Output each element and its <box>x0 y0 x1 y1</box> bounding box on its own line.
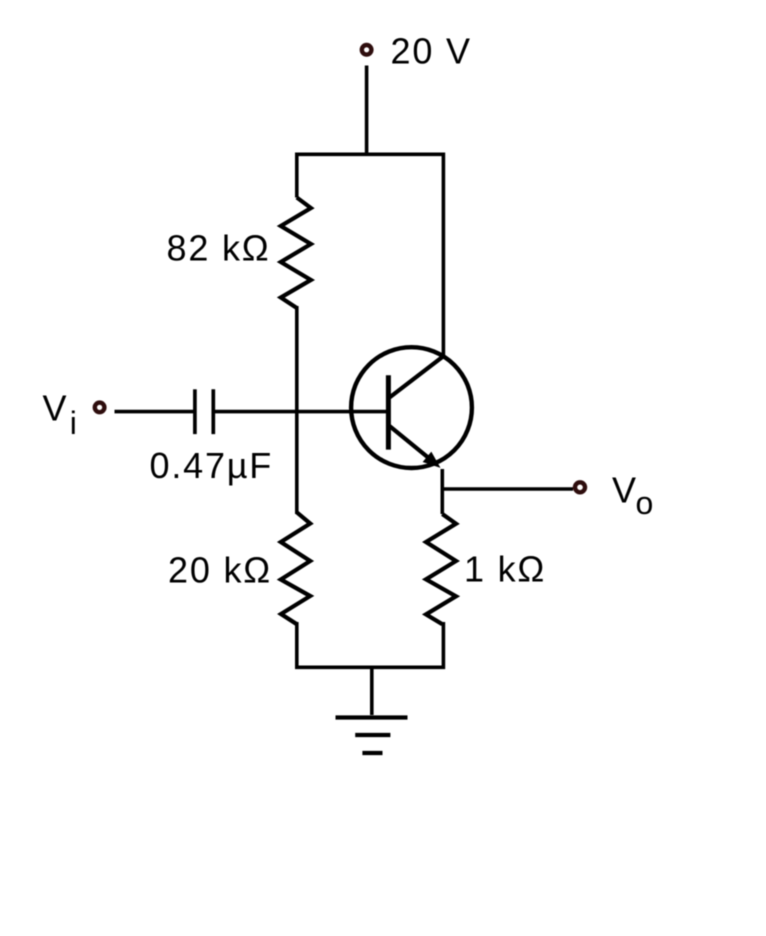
wire bottom loop <box>297 622 444 667</box>
svg-text:i: i <box>70 405 79 441</box>
transistor Q1 collector diagonal <box>390 356 444 397</box>
wire supply vertical <box>365 66 369 157</box>
wire emitter vertical <box>440 469 444 514</box>
node Vo terminal <box>575 482 585 492</box>
capacitor C1 0.47uF <box>193 389 197 434</box>
resistor R1 82k <box>281 198 311 309</box>
wire Vi to capacitor <box>115 410 195 414</box>
svg-text:o: o <box>636 485 656 521</box>
svg-text:1 kΩ: 1 kΩ <box>464 549 546 590</box>
transistor Q1 base bar <box>386 375 391 449</box>
transistor Q1 circle <box>351 347 472 468</box>
transistor Q1 emitter diagonal <box>390 426 434 462</box>
node Vi terminal <box>95 403 105 413</box>
wire top loop: top horizontal and collector vertical <box>297 154 444 356</box>
svg-text:0.47µF: 0.47µF <box>150 445 274 486</box>
svg-text:V: V <box>43 388 69 429</box>
wire emitter to Vo <box>442 487 573 491</box>
resistor R2 20k <box>281 512 310 624</box>
transistor Q1 emitter arrowhead <box>424 453 439 467</box>
svg-text:V: V <box>612 470 638 511</box>
svg-text:20 kΩ: 20 kΩ <box>168 550 272 591</box>
wire capacitor to base <box>213 410 388 414</box>
svg-text:82 kΩ: 82 kΩ <box>167 228 271 269</box>
wire left rail middle <box>295 306 299 514</box>
ground <box>370 667 374 715</box>
terminal node 20V <box>362 45 372 55</box>
resistor R3 1k <box>426 514 456 624</box>
svg-text:20 V: 20 V <box>391 31 472 72</box>
